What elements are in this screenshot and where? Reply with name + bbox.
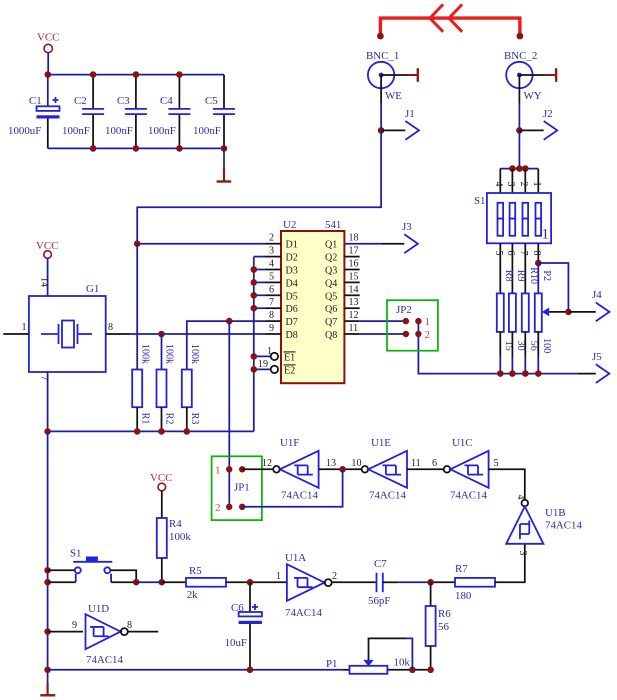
svg-text:9: 9 (72, 620, 77, 631)
capacitor C2 (62, 75, 104, 149)
wire S1 node to R5 (136, 581, 162, 583)
resistor R8 (497, 270, 514, 374)
svg-text:J3: J3 (402, 221, 412, 233)
svg-text:J2: J2 (543, 108, 553, 120)
svg-text:9: 9 (269, 323, 274, 334)
wire Q7 to JP2 (344, 320, 406, 322)
wire left ground rail (44, 431, 51, 683)
wire U1C out to U1B (489, 469, 525, 499)
svg-text:U1C: U1C (452, 437, 473, 449)
svg-text:C1: C1 (29, 95, 42, 107)
svg-text:13: 13 (349, 297, 359, 308)
port J5 (578, 351, 610, 383)
svg-text:8: 8 (531, 250, 542, 255)
wire BNC_2 down (518, 75, 520, 130)
U2 left pin numbers 2-9 (269, 233, 274, 334)
svg-text:4: 4 (493, 181, 504, 186)
svg-text:30: 30 (515, 341, 526, 351)
svg-text:6: 6 (269, 284, 274, 295)
G1 pin 1 stub (3, 322, 29, 334)
svg-text:C3: C3 (117, 95, 130, 107)
svg-text:J4: J4 (592, 289, 602, 301)
svg-text:74AC14: 74AC14 (450, 490, 487, 502)
svg-text:17: 17 (349, 246, 359, 257)
potentiometer P1 (326, 638, 412, 673)
svg-text:P2: P2 (541, 270, 552, 281)
svg-text:D5: D5 (286, 291, 298, 302)
svg-text:1000uF: 1000uF (8, 125, 41, 137)
port J2 (519, 108, 557, 140)
svg-text:74AC14: 74AC14 (545, 520, 582, 532)
port J3 (344, 221, 418, 253)
svg-text:10k: 10k (394, 657, 411, 669)
capacitor C6 (225, 582, 262, 670)
connector BNC_1 (366, 50, 418, 102)
svg-text:R8: R8 (503, 270, 514, 282)
potentiometer P2 (535, 270, 569, 373)
wire top bus of capacitor bank (48, 74, 224, 76)
inverter U1A (276, 552, 337, 619)
svg-text:2k: 2k (187, 589, 198, 601)
svg-text:1: 1 (542, 227, 550, 243)
svg-text:100k: 100k (139, 344, 150, 365)
svg-text:16: 16 (349, 259, 359, 270)
svg-text:5: 5 (269, 271, 274, 282)
svg-text:VCC: VCC (150, 472, 172, 484)
port J4 (568, 289, 609, 321)
capacitor C7 (368, 558, 390, 607)
svg-text:100nF: 100nF (105, 125, 133, 137)
svg-text:7: 7 (269, 297, 274, 308)
svg-text:100: 100 (541, 338, 552, 353)
svg-text:100nF: 100nF (193, 125, 221, 137)
port J1 (381, 108, 419, 140)
svg-text:D4: D4 (286, 278, 298, 289)
node dots cap bank bottom (90, 145, 228, 152)
wire DIP top bus (500, 168, 538, 170)
resistor R4 (157, 518, 192, 582)
wire red signal bus (top) (377, 18, 523, 39)
svg-text:56pF: 56pF (368, 595, 390, 607)
node dots cap bank top (45, 71, 183, 78)
connector JP1 (212, 456, 262, 520)
svg-text:R10: R10 (528, 267, 539, 284)
svg-text:Q4: Q4 (325, 278, 337, 289)
svg-text:74AC14: 74AC14 (285, 607, 322, 619)
resistor R3 (182, 344, 200, 431)
pushbutton S1 leads (48, 570, 137, 582)
svg-text:BNC_2: BNC_2 (504, 50, 537, 62)
inverter U1F (262, 437, 336, 502)
node S1/R4 junction (133, 579, 140, 586)
resistor R7 (455, 563, 495, 602)
svg-text:15: 15 (349, 271, 359, 282)
svg-text:1: 1 (531, 181, 542, 186)
capacitor C4 (148, 75, 190, 149)
svg-text:10uF: 10uF (225, 637, 247, 649)
svg-text:12: 12 (262, 458, 272, 469)
svg-text:P1: P1 (326, 658, 338, 670)
connector BNC_2 (504, 50, 556, 102)
resistor R10 (522, 267, 539, 373)
resistor R6 (426, 582, 452, 670)
resistor R9 (509, 270, 526, 374)
svg-text:C2: C2 (74, 95, 87, 107)
svg-text:7: 7 (38, 375, 49, 380)
node R4 bottom (159, 579, 166, 586)
wire bottom ground bus (48, 667, 434, 674)
svg-text:R2: R2 (164, 413, 175, 425)
svg-text:11: 11 (411, 458, 421, 469)
DIP pin stubs bottom, numbers 5 6 7 8 (493, 243, 542, 293)
svg-text:2: 2 (425, 329, 431, 341)
node J4 junction (565, 309, 572, 316)
VCC power symbol (R4) (150, 472, 172, 518)
svg-text:4: 4 (269, 259, 274, 270)
node dots DIP top (509, 165, 528, 172)
svg-text:Q7: Q7 (325, 317, 337, 328)
wire D7 row (187, 318, 266, 370)
svg-text:R1: R1 (139, 413, 150, 425)
svg-text:D7: D7 (286, 317, 298, 328)
wire JP1 pin1 to U1F (242, 468, 273, 470)
wire C7 to R7 node (383, 581, 397, 583)
wire R2 column (161, 334, 163, 370)
svg-text:WY: WY (524, 90, 542, 102)
wire R5 to U1A (226, 581, 287, 583)
svg-text:56: 56 (528, 341, 539, 351)
svg-text:Q3: Q3 (325, 266, 337, 277)
svg-text:U2: U2 (283, 219, 296, 231)
pushbutton S1 (70, 548, 112, 574)
svg-text:5: 5 (493, 250, 504, 255)
wire BNC_1 down (380, 75, 382, 130)
svg-text:74AC14: 74AC14 (369, 490, 406, 502)
svg-text:U1B: U1B (545, 507, 566, 519)
svg-text:74AC14: 74AC14 (86, 654, 123, 666)
node dots D3-D6 and E1 E2 (251, 266, 258, 373)
svg-text:56: 56 (438, 621, 449, 633)
svg-text:6: 6 (432, 458, 437, 469)
svg-text:8: 8 (127, 620, 132, 631)
U2 right pin numbers 18-11 (349, 233, 359, 334)
svg-text:C7: C7 (374, 558, 387, 570)
red bus double arrowheads (430, 4, 462, 31)
svg-text:19: 19 (258, 359, 268, 370)
svg-text:U1E: U1E (371, 437, 391, 449)
capacitor C1 (8, 75, 60, 149)
svg-text:13: 13 (326, 458, 336, 469)
svg-text:WE: WE (385, 90, 402, 102)
svg-text:14: 14 (38, 277, 49, 287)
svg-text:11: 11 (349, 323, 359, 334)
wire Q8 to JP2 (344, 333, 406, 335)
svg-text:100k: 100k (189, 344, 200, 365)
wire BNC_2 to DIP switch (518, 130, 520, 168)
svg-text:D3: D3 (286, 266, 298, 277)
VCC power symbol (cap bank) (37, 32, 59, 75)
svg-text:Q1: Q1 (325, 240, 337, 251)
svg-text:1: 1 (21, 322, 26, 333)
node U1F out junction (339, 466, 346, 473)
node WE junction (378, 127, 385, 134)
inverter U1C (432, 437, 499, 502)
svg-text:1: 1 (276, 571, 281, 582)
resistor R2 (157, 344, 175, 431)
svg-text:5: 5 (494, 458, 499, 469)
U2 right pin stubs (344, 257, 359, 309)
svg-text:1: 1 (425, 316, 431, 328)
svg-text:1: 1 (267, 346, 272, 357)
wire J5 bus (418, 321, 577, 374)
svg-text:1: 1 (215, 465, 221, 477)
svg-text:J5: J5 (592, 351, 602, 363)
svg-text:7: 7 (518, 250, 529, 255)
node C6 junction (247, 579, 254, 586)
ground (bottom left) (40, 683, 55, 695)
DIP pin numbers 4 3 2 1 (493, 181, 542, 186)
wire D1 row (134, 240, 266, 247)
svg-text:Q8: Q8 (325, 330, 337, 341)
connector JP2 (387, 300, 438, 351)
inverter U1E (351, 437, 420, 502)
wire P2 top to wiper loop (538, 263, 568, 312)
svg-text:2: 2 (269, 233, 274, 244)
svg-text:JP2: JP2 (396, 304, 412, 316)
svg-text:6: 6 (505, 250, 516, 255)
IC U2 74x541 body (281, 219, 344, 383)
svg-text:G1: G1 (86, 283, 99, 295)
svg-text:18: 18 (349, 233, 359, 244)
wire R7 to U1B output (495, 544, 525, 583)
U2 enable labels E1 E2 with overline (284, 352, 296, 377)
svg-text:180: 180 (455, 590, 472, 602)
svg-text:E2: E2 (284, 365, 295, 376)
svg-text:8: 8 (269, 310, 274, 321)
resistor R5 (186, 565, 226, 601)
svg-text:D8: D8 (286, 330, 298, 341)
svg-text:D6: D6 (286, 304, 298, 315)
svg-text:3: 3 (505, 181, 516, 186)
svg-text:Q6: Q6 (325, 304, 337, 315)
svg-text:2: 2 (518, 181, 529, 186)
svg-text:R9: R9 (515, 270, 526, 282)
svg-text:10: 10 (351, 458, 361, 469)
capacitor C3 (105, 75, 147, 149)
svg-text:E1: E1 (284, 352, 295, 363)
DIP switch S1 (474, 193, 551, 243)
VCC power symbol (G1) (36, 240, 58, 296)
svg-text:R5: R5 (189, 565, 202, 577)
node R6/R7/C7 junction (427, 579, 434, 586)
U2 left pin stubs (266, 244, 282, 334)
U2 input labels D1-D8 (286, 240, 298, 341)
svg-text:3: 3 (517, 550, 528, 555)
svg-text:S1: S1 (70, 548, 82, 560)
svg-text:U1D: U1D (88, 603, 109, 615)
svg-text:8: 8 (108, 322, 113, 333)
svg-text:C5: C5 (205, 95, 218, 107)
svg-text:2: 2 (215, 502, 221, 514)
U2 enable pins bubbles and numbers (254, 346, 278, 373)
capacitor C5 (193, 75, 235, 149)
inverter U1B (506, 494, 582, 555)
wire D7 to JP1 pin1 (228, 321, 230, 507)
svg-text:74AC14: 74AC14 (281, 490, 318, 502)
svg-text:100k: 100k (169, 531, 191, 543)
svg-text:BNC_1: BNC_1 (366, 50, 399, 62)
svg-text:4: 4 (515, 494, 526, 499)
DIP pin stubs top (500, 169, 538, 193)
svg-text:C6: C6 (231, 602, 244, 614)
wire P2 top dot to body (537, 263, 539, 293)
G1 pin 7 wire down (38, 372, 49, 431)
wire U1E out to U1C (407, 468, 444, 470)
svg-text:12: 12 (349, 310, 359, 321)
svg-text:100nF: 100nF (62, 125, 90, 137)
wire bottom bus of capacitor bank (48, 147, 224, 149)
oscillator G1 (29, 283, 106, 372)
node WY junction (516, 127, 523, 134)
svg-text:100k: 100k (164, 344, 175, 365)
svg-text:VCC: VCC (37, 32, 59, 44)
resistor R1 (132, 344, 150, 431)
svg-text:C4: C4 (160, 95, 173, 107)
svg-text:3: 3 (269, 246, 274, 257)
wire U1F out to U1E (319, 468, 362, 470)
inverter U1D (48, 603, 159, 666)
wire D2-D6 and enables vertical (254, 257, 266, 432)
svg-text:R6: R6 (438, 608, 451, 620)
svg-text:U1A: U1A (285, 552, 306, 564)
svg-text:JP1: JP1 (234, 482, 250, 494)
svg-text:2: 2 (332, 571, 337, 582)
svg-text:541: 541 (325, 219, 341, 231)
svg-text:D2: D2 (286, 253, 298, 264)
G1 pin 8 stub (106, 322, 131, 334)
svg-text:Q2: Q2 (325, 253, 337, 264)
node dots J5 bus (497, 370, 542, 377)
U2 output labels Q1-Q8 (325, 240, 337, 341)
svg-text:D1: D1 (286, 240, 298, 251)
wire R1 column (136, 244, 138, 370)
svg-text:R7: R7 (455, 563, 468, 575)
svg-text:Q5: Q5 (325, 291, 337, 302)
wire common rail y431 (44, 428, 254, 435)
wire U1F out to JP1 pin2 (242, 469, 342, 507)
ground (cap bank) (217, 148, 232, 181)
wire WE to D1 (137, 130, 381, 243)
svg-text:J1: J1 (405, 108, 415, 120)
svg-text:R3: R3 (189, 413, 200, 425)
svg-text:U1F: U1F (280, 437, 299, 449)
wire D8 row (G1 pin8 to U2 pin9) (130, 331, 265, 338)
svg-text:14: 14 (349, 284, 359, 295)
svg-text:R4: R4 (169, 518, 182, 530)
node P2 top junction (535, 260, 542, 267)
svg-text:100nF: 100nF (148, 125, 176, 137)
svg-text:S1: S1 (474, 195, 486, 207)
wire U1A out to C7 (332, 581, 377, 583)
